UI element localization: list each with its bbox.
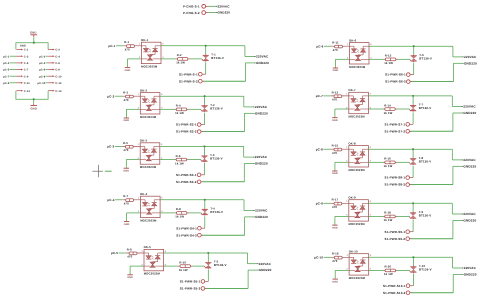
svg-text:GND: GND: [332, 226, 338, 229]
svg-text:R-7: R-7: [123, 195, 128, 198]
svg-text:6: 6: [165, 250, 167, 253]
svg-text:GND: GND: [20, 45, 26, 48]
svg-text:470: 470: [332, 206, 337, 209]
svg-text:R-18: R-18: [384, 212, 391, 215]
svg-text:BT136-V: BT136-V: [210, 211, 223, 215]
svg-text:S1-PWR-S4-2: S1-PWR-S4-2: [176, 234, 197, 238]
svg-text:BT136-V: BT136-V: [210, 107, 223, 111]
svg-text:OK-3: OK-3: [140, 140, 147, 143]
svg-text:470: 470: [124, 202, 129, 205]
svg-text:MOC3023M: MOC3023M: [349, 169, 365, 172]
svg-text:T-1: T-1: [211, 54, 215, 57]
svg-text:220VAC: 220VAC: [463, 213, 475, 217]
svg-text:1: 1: [346, 93, 348, 96]
svg-text:OK-5: OK-5: [144, 246, 151, 249]
svg-text:S1-PWR-S3-2: S1-PWR-S3-2: [176, 180, 197, 184]
svg-text:MOC3023M: MOC3023M: [349, 277, 365, 280]
svg-text:T-5: T-5: [214, 261, 218, 264]
svg-text:1: 1: [346, 146, 348, 149]
svg-text:GND: GND: [332, 172, 338, 175]
svg-text:GND: GND: [127, 276, 133, 279]
svg-text:1k 1W: 1k 1W: [175, 112, 184, 116]
svg-text:GND: GND: [30, 107, 37, 110]
svg-text:1k 1W: 1k 1W: [384, 273, 393, 277]
svg-text:µC-4: µC-4: [107, 199, 114, 203]
svg-text:MOC3023M: MOC3023M: [349, 66, 365, 69]
svg-text:S1-PWR-S2-1: S1-PWR-S2-1: [176, 123, 197, 127]
svg-text:C-10: C-10: [55, 75, 61, 78]
svg-text:GND220: GND220: [255, 216, 268, 220]
svg-text:GND: GND: [125, 69, 131, 72]
svg-text:C-14: C-14: [55, 90, 61, 93]
svg-text:µC-2: µC-2: [107, 95, 114, 99]
svg-text:µC-9: µC-9: [3, 82, 9, 85]
svg-text:µC-9: µC-9: [316, 202, 323, 206]
svg-text:GND220: GND220: [218, 11, 231, 15]
svg-text:µC-8: µC-8: [316, 148, 323, 152]
svg-text:R-14: R-14: [384, 104, 391, 107]
svg-text:1: 1: [138, 93, 140, 96]
svg-text:1k 1W: 1k 1W: [384, 62, 393, 66]
svg-text:R-5: R-5: [123, 142, 128, 145]
svg-text:MOC3023M: MOC3023M: [144, 273, 160, 276]
svg-text:1: 1: [141, 250, 143, 253]
svg-text:1k 1W: 1k 1W: [384, 219, 393, 223]
svg-text:T-3: T-3: [210, 154, 214, 157]
svg-text:R-8: R-8: [176, 208, 181, 211]
svg-text:µC-5: µC-5: [3, 69, 9, 72]
svg-text:S1-PWR-S7-1: S1-PWR-S7-1: [385, 123, 406, 127]
svg-text:T-7: T-7: [419, 104, 423, 107]
svg-text:220VAC: 220VAC: [463, 105, 475, 109]
svg-text:470: 470: [332, 152, 337, 155]
svg-text:6: 6: [370, 93, 372, 96]
svg-text:GND: GND: [332, 280, 338, 283]
svg-text:220VAC: 220VAC: [255, 209, 267, 213]
svg-text:T-2: T-2: [210, 104, 214, 107]
svg-text:BT136-V: BT136-V: [419, 160, 432, 164]
svg-text:R-17: R-17: [332, 199, 339, 202]
svg-text:R-1: R-1: [124, 41, 129, 44]
svg-text:C-13: C-13: [24, 90, 30, 93]
svg-text:S1-PWR-S10-2: S1-PWR-S10-2: [383, 291, 406, 295]
svg-text:R-12: R-12: [385, 55, 392, 58]
svg-text:T-6: T-6: [419, 54, 423, 57]
svg-text:C-7: C-7: [24, 69, 29, 72]
svg-text:1k 1W: 1k 1W: [176, 61, 185, 64]
svg-text:GND220: GND220: [464, 273, 477, 277]
svg-text:470: 470: [127, 256, 132, 259]
svg-text:GND: GND: [124, 119, 130, 122]
svg-text:470: 470: [123, 149, 128, 152]
svg-text:6: 6: [162, 43, 164, 46]
svg-text:S1-PWR-S5-2: S1-PWR-S5-2: [180, 287, 201, 291]
svg-text:GND220: GND220: [255, 112, 268, 116]
svg-text:C-4: C-4: [55, 55, 60, 58]
svg-text:OK-7: OK-7: [348, 89, 355, 92]
svg-text:BT136-V: BT136-V: [211, 57, 224, 61]
svg-text:1k 1W: 1k 1W: [175, 215, 184, 219]
svg-text:S1-PWR-S9-2: S1-PWR-S9-2: [385, 237, 406, 241]
svg-text:µC-10: µC-10: [38, 82, 46, 85]
svg-text:R-2: R-2: [177, 54, 182, 57]
svg-text:1k 1W: 1k 1W: [384, 165, 393, 169]
svg-text:T-10: T-10: [419, 265, 425, 268]
svg-text:R-19: R-19: [332, 253, 339, 256]
svg-text:1k 1W: 1k 1W: [179, 268, 188, 272]
svg-text:R-15: R-15: [332, 145, 339, 148]
svg-text:220VAC: 220VAC: [464, 56, 476, 60]
svg-text:BT136-V: BT136-V: [419, 57, 432, 61]
svg-text:C-6: C-6: [55, 62, 60, 65]
svg-text:S1-PWR-S6-1: S1-PWR-S6-1: [385, 73, 406, 77]
svg-text:S1-PWR-S8-1: S1-PWR-S8-1: [385, 176, 406, 180]
svg-text:BT136-V: BT136-V: [419, 268, 432, 272]
svg-text:GND220: GND220: [463, 219, 476, 223]
svg-text:OK-8: OK-8: [348, 142, 355, 145]
svg-text:R-13: R-13: [332, 91, 339, 94]
svg-text:S1-PWR-S-1: S1-PWR-S-1: [179, 73, 198, 77]
svg-text:1k 1W: 1k 1W: [175, 162, 184, 166]
svg-text:R-20: R-20: [385, 266, 392, 269]
svg-text:1: 1: [347, 43, 349, 46]
svg-text:220VAC: 220VAC: [256, 55, 268, 59]
svg-text:OK-1: OK-1: [141, 39, 148, 42]
svg-text:T-8: T-8: [419, 157, 423, 160]
svg-text:C-3: C-3: [24, 55, 29, 58]
svg-text:C-2: C-2: [55, 49, 60, 52]
svg-text:GND220: GND220: [463, 112, 476, 116]
svg-text:470: 470: [332, 99, 337, 102]
svg-text:µC-6: µC-6: [39, 69, 45, 72]
svg-text:R-10: R-10: [179, 261, 186, 264]
svg-text:S1-PWR-S9-1: S1-PWR-S9-1: [385, 230, 406, 234]
svg-text:6: 6: [161, 143, 163, 146]
svg-text:R-11: R-11: [332, 42, 339, 45]
svg-text:S1-PWR-S4-1: S1-PWR-S4-1: [176, 227, 197, 231]
svg-text:µC-3: µC-3: [3, 62, 9, 65]
svg-text:GND220: GND220: [259, 269, 272, 273]
svg-text:S1-PWR-S3-1: S1-PWR-S3-1: [176, 173, 197, 177]
svg-text:GND: GND: [124, 223, 130, 226]
svg-text:OK-2: OK-2: [140, 89, 147, 92]
svg-text:GND220: GND220: [255, 162, 268, 166]
svg-text:6: 6: [370, 254, 372, 257]
svg-text:µC-6: µC-6: [316, 45, 323, 49]
svg-text:6: 6: [370, 146, 372, 149]
svg-text:MOC3023M: MOC3023M: [140, 166, 156, 169]
svg-text:OK-4: OK-4: [140, 193, 148, 196]
svg-text:220VAC: 220VAC: [463, 159, 475, 163]
svg-text:µC-10: µC-10: [314, 256, 323, 260]
svg-text:GND: GND: [30, 31, 37, 34]
svg-text:GND220: GND220: [464, 62, 477, 66]
svg-text:470: 470: [333, 49, 338, 52]
svg-text:220VAC: 220VAC: [464, 267, 476, 271]
svg-text:GND220: GND220: [256, 62, 269, 66]
svg-text:S1-PWR-S2-2: S1-PWR-S2-2: [176, 130, 197, 134]
svg-text:MOC3023M: MOC3023M: [141, 66, 157, 69]
svg-text:GND: GND: [123, 169, 129, 172]
svg-text:1: 1: [346, 200, 348, 203]
svg-text:R-3: R-3: [123, 92, 128, 95]
svg-text:C-9: C-9: [24, 75, 29, 78]
svg-text:BT136-V: BT136-V: [210, 157, 223, 161]
svg-text:S1-PWR-S6-2: S1-PWR-S6-2: [385, 80, 406, 84]
svg-text:470: 470: [125, 48, 130, 51]
svg-text:GND: GND: [333, 69, 339, 72]
svg-text:P-CHG-S-2: P-CHG-S-2: [183, 11, 200, 15]
svg-text:6: 6: [370, 200, 372, 203]
svg-text:GND: GND: [332, 119, 338, 122]
svg-text:µC-7: µC-7: [3, 75, 9, 78]
svg-text:S1-PWR-S8-2: S1-PWR-S8-2: [385, 183, 406, 187]
svg-text:µC-3: µC-3: [107, 145, 114, 149]
svg-text:BT136-V: BT136-V: [214, 264, 227, 268]
svg-text:R-4: R-4: [176, 105, 181, 108]
svg-text:470: 470: [124, 99, 129, 102]
svg-text:1: 1: [346, 254, 348, 257]
svg-text:C-12: C-12: [55, 82, 61, 85]
svg-text:R-9: R-9: [127, 248, 132, 251]
svg-text:µC-1: µC-1: [108, 45, 115, 49]
svg-text:OK-6: OK-6: [349, 39, 356, 42]
svg-text:1: 1: [138, 197, 140, 200]
svg-text:1: 1: [138, 143, 140, 146]
svg-text:R-16: R-16: [384, 158, 391, 161]
svg-text:6: 6: [161, 93, 163, 96]
svg-text:OK-10: OK-10: [349, 251, 358, 254]
svg-text:6: 6: [161, 197, 163, 200]
svg-text:MOC3023M: MOC3023M: [140, 220, 156, 223]
svg-text:MOC3023M: MOC3023M: [140, 116, 156, 119]
svg-text:220VAC: 220VAC: [259, 262, 271, 266]
svg-text:µC-7: µC-7: [316, 95, 323, 99]
svg-text:GND220: GND220: [463, 165, 476, 169]
svg-text:R-6: R-6: [176, 155, 181, 158]
svg-text:MOC3023M: MOC3023M: [349, 223, 365, 226]
svg-text:S1-PWR-S7-2: S1-PWR-S7-2: [385, 130, 406, 134]
svg-text:µC-4: µC-4: [39, 62, 45, 65]
svg-text:1k 1W: 1k 1W: [384, 111, 393, 115]
svg-text:C-11: C-11: [24, 82, 30, 85]
svg-text:OK-9: OK-9: [348, 197, 355, 200]
svg-text:S1-PWR-S-2: S1-PWR-S-2: [179, 80, 198, 84]
svg-text:µC-5: µC-5: [111, 252, 118, 256]
svg-text:BT136-V: BT136-V: [419, 214, 432, 218]
svg-text:6: 6: [370, 43, 372, 46]
svg-text:BT136-V: BT136-V: [419, 107, 432, 111]
svg-text:C-8: C-8: [55, 69, 60, 72]
svg-text:220VAC: 220VAC: [255, 106, 267, 110]
svg-text:T-9: T-9: [419, 211, 423, 214]
svg-text:220VAC: 220VAC: [255, 156, 267, 160]
svg-text:1: 1: [139, 43, 141, 46]
svg-text:470: 470: [332, 260, 337, 263]
svg-text:220VAC: 220VAC: [218, 5, 230, 8]
svg-text:T-4: T-4: [210, 208, 215, 211]
svg-text:S1-PWR-S10-1: S1-PWR-S10-1: [383, 284, 406, 288]
svg-text:S1-PWR-S5-1: S1-PWR-S5-1: [180, 280, 201, 284]
svg-text:P-CHG-S-1: P-CHG-S-1: [183, 5, 200, 9]
svg-text:C-1: C-1: [24, 49, 29, 52]
svg-text:µC-2: µC-2: [39, 55, 45, 58]
svg-text:C-5: C-5: [24, 62, 29, 65]
svg-text:MOC3023M: MOC3023M: [349, 116, 365, 119]
svg-text:µC-8: µC-8: [39, 75, 45, 78]
svg-text:µC-1: µC-1: [3, 55, 9, 58]
